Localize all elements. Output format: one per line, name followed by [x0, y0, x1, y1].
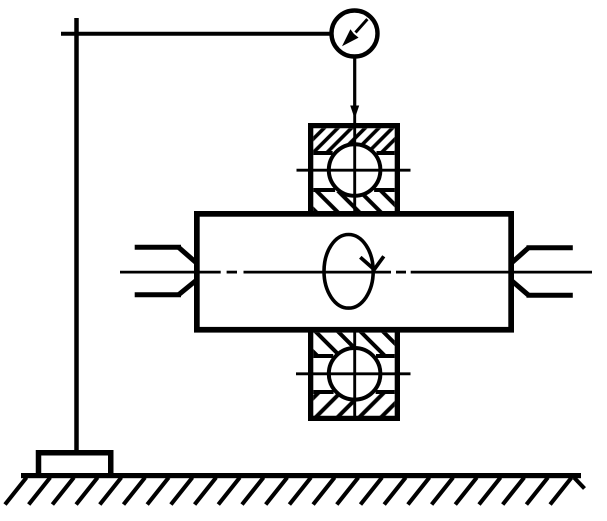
bottom bearing ball	[329, 348, 381, 400]
pointer stem	[353, 56, 356, 107]
top bearing ball	[329, 144, 381, 196]
stand base	[39, 453, 111, 475]
pointer arrowhead	[350, 106, 359, 119]
vertical centerline lower	[353, 327, 356, 419]
dial needle arrowhead	[342, 29, 359, 46]
stand arm	[61, 32, 332, 36]
ground line	[21, 473, 581, 478]
bottom bearing hatch lower band	[313, 394, 394, 416]
bottom bearing hatch upper band	[313, 333, 394, 354]
top bearing hatch lower band	[313, 192, 394, 211]
stand post	[74, 18, 79, 452]
bottom bearing raceway line upper	[313, 354, 394, 358]
left center support	[135, 247, 196, 294]
top bearing horizontal centerline	[297, 169, 411, 172]
shaft housing rectangle	[197, 214, 511, 330]
bottom bearing horizontal centerline	[296, 372, 411, 375]
shaft centerline (dash-dot)	[120, 271, 592, 274]
top bearing outline	[311, 126, 398, 217]
bottom bearing ball blank	[328, 347, 382, 401]
bottom bearing raceway line lower	[313, 390, 394, 394]
shaft rotation ellipse	[324, 234, 373, 308]
dial needle	[356, 19, 368, 32]
vertical centerline upper	[353, 107, 356, 217]
top bearing raceway line upper	[313, 151, 394, 155]
top bearing ball blank	[328, 143, 382, 197]
top bearing hatch upper band	[313, 128, 394, 151]
dial indicator body	[332, 11, 378, 57]
rotation arrowhead	[360, 256, 384, 269]
top bearing raceway line lower	[313, 188, 394, 192]
top bearing	[297, 126, 411, 217]
right center support	[512, 248, 573, 295]
bottom bearing	[296, 327, 411, 418]
bottom bearing outline	[311, 327, 398, 418]
ground hatching	[5, 478, 585, 505]
